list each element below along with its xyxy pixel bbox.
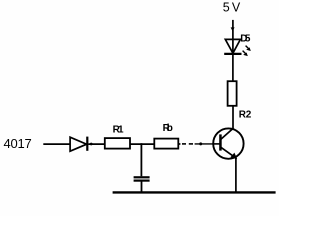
- svg-text:4017: 4017: [4, 136, 32, 151]
- svg-text:D5: D5: [240, 33, 251, 44]
- svg-text:R2: R2: [239, 109, 252, 120]
- svg-text:5: 5: [223, 1, 230, 15]
- svg-text:Rb: Rb: [163, 123, 173, 134]
- svg-text:R1: R1: [113, 125, 124, 136]
- svg-text:V: V: [232, 1, 241, 15]
